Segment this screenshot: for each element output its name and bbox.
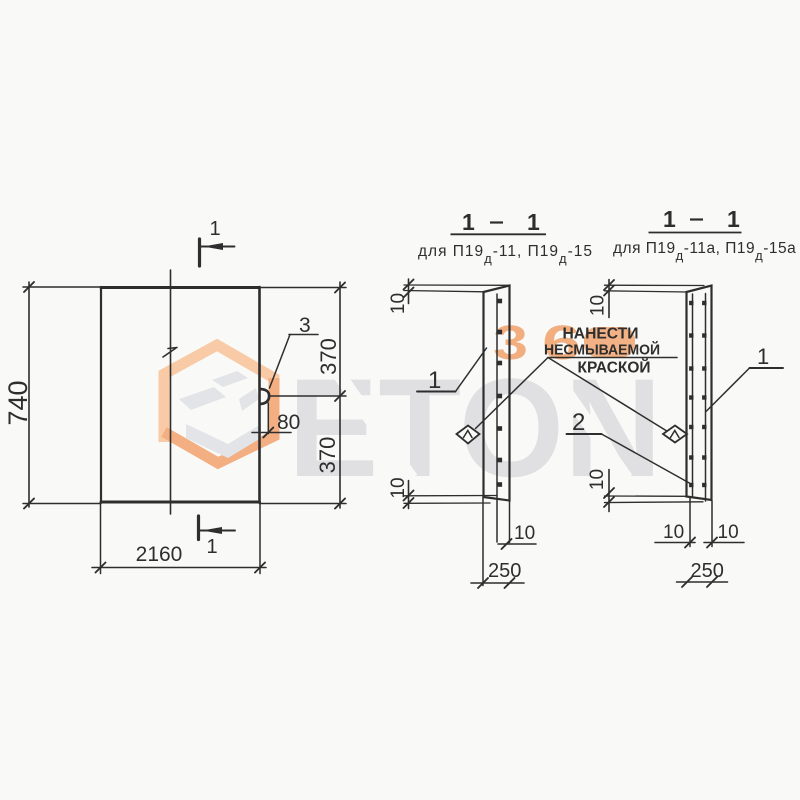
- panel section A outline: [484, 286, 510, 501]
- svg-text:1: 1: [210, 218, 221, 240]
- svg-text:1: 1: [663, 206, 676, 232]
- middle text leader line: [548, 357, 677, 359]
- centerline: [170, 270, 172, 514]
- svg-text:10: 10: [587, 469, 608, 490]
- PLAN VIEW: [23, 239, 346, 574]
- svg-text:НЕСМЫВАЕМОЙ: НЕСМЫВАЕМОЙ: [544, 341, 660, 359]
- panel outline top edge: [101, 286, 260, 289]
- dim 10 bottom-left side B: [608, 470, 610, 512]
- svg-text:2: 2: [572, 409, 585, 436]
- extension line bottom-left: [23, 503, 101, 505]
- dimension line 2160: [92, 567, 266, 569]
- svg-text:250: 250: [691, 560, 724, 582]
- svg-text:250: 250: [488, 560, 521, 582]
- label 1 leader A: [417, 391, 456, 393]
- centerline break mark: [163, 348, 177, 358]
- svg-text:10: 10: [588, 295, 609, 316]
- panel section B outline: [687, 286, 712, 501]
- svg-text:1: 1: [207, 536, 218, 558]
- svg-text:КРАСКОЙ: КРАСКОЙ: [578, 359, 651, 377]
- diamond marker B: [663, 426, 687, 443]
- extension line middle from hook: [269, 395, 346, 397]
- extension line bottom-right: [260, 503, 347, 505]
- dim 10 bottom-left A: [408, 481, 410, 509]
- label 1 leader B: [750, 367, 784, 369]
- svg-text:10: 10: [663, 522, 684, 543]
- below-panel extensions B: [689, 497, 691, 547]
- rebar dots A: [498, 299, 503, 487]
- hook extension vertical: [267, 403, 269, 434]
- middle note text: [544, 326, 660, 377]
- svg-text:1: 1: [757, 344, 769, 369]
- watermark 36 orange digits: [493, 317, 635, 370]
- svg-text:2160: 2160: [136, 543, 183, 566]
- svg-text:3: 3: [299, 314, 311, 337]
- svg-text:1: 1: [428, 367, 441, 394]
- dim 10 top-left A: [408, 279, 410, 304]
- dimension line 370/370 right: [339, 282, 341, 508]
- svg-text:НАНЕСТИ: НАНЕСТИ: [563, 326, 639, 343]
- panel outline bottom edge: [101, 501, 260, 504]
- section mark 1 top: [198, 239, 201, 266]
- leader for label 3: [270, 335, 291, 389]
- svg-text:10: 10: [388, 293, 409, 314]
- svg-text:10: 10: [388, 477, 409, 498]
- svg-text:80: 80: [277, 411, 300, 434]
- leader to diamond B: [548, 358, 666, 431]
- rebar lines B: [692, 294, 694, 497]
- svg-text:1: 1: [462, 209, 475, 235]
- extension line top-left: [23, 286, 101, 288]
- dim 250 A: [471, 582, 524, 584]
- svg-text:370: 370: [315, 437, 340, 474]
- watermark ETON letters: [288, 349, 662, 506]
- svg-text:370: 370: [316, 338, 341, 375]
- left extension for 250 A: [482, 497, 484, 586]
- dim 10 bottom A: [498, 543, 536, 545]
- watermark hexagon logo: [164, 345, 274, 463]
- section B texts: [572, 295, 769, 582]
- panel outline right edge: [258, 287, 261, 503]
- label 2 leader: [567, 433, 602, 435]
- leader to diamond A: [476, 358, 549, 429]
- plan view texts: [3, 218, 341, 566]
- lifting hook detail: [260, 389, 269, 404]
- diamond marker A: [457, 426, 480, 444]
- dim 10 bottom-left B: [655, 542, 695, 544]
- titles: [418, 206, 796, 266]
- right edge extension A: [509, 501, 511, 543]
- dim 10 top-left B: [608, 280, 610, 318]
- dimension line 80: [252, 432, 291, 434]
- svg-text:1: 1: [727, 206, 740, 232]
- rebar line A: [496, 294, 498, 542]
- section A texts: [388, 293, 535, 582]
- panel outline left edge: [100, 287, 102, 503]
- extension line top-right: [260, 287, 347, 289]
- svg-text:740: 740: [3, 380, 33, 425]
- dim 250 B: [677, 581, 728, 583]
- svg-text:1: 1: [527, 209, 540, 235]
- SECTION B (right): [548, 280, 783, 588]
- dimension line 740: [28, 282, 30, 507]
- rebar dots B: [689, 301, 706, 487]
- SECTION A (left): [404, 279, 549, 588]
- svg-text:10: 10: [718, 522, 739, 543]
- dim 10 bottom-right B: [704, 542, 744, 544]
- section mark 1 bottom: [197, 516, 200, 540]
- svg-text:10: 10: [514, 523, 535, 544]
